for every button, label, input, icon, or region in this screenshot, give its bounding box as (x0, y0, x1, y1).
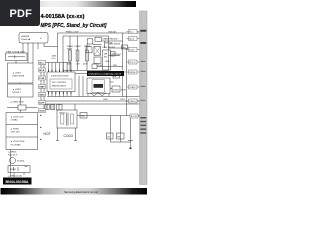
svg-text:▲: ▲ (40, 126, 43, 129)
cap label box (122, 45, 128, 49)
pin box P6 (129, 85, 138, 89)
drive net black strip (87, 71, 124, 76)
svg-text:CN801 AC: CN801 AC (108, 31, 117, 34)
wire: aux horizontal (109, 47, 127, 49)
fuse element (8, 55, 25, 58)
PFC choke winding 2 (51, 105, 55, 110)
transformer T801S box (57, 110, 77, 128)
pin box P8 (130, 114, 138, 118)
svg-text:GND-S: GND-S (129, 101, 136, 103)
svg-text:IC801S DDP-SS2N: IC801S DDP-SS2N (51, 76, 69, 78)
wire box2 to inrush switch (20, 97, 22, 113)
svg-text:T801S: T801S (59, 113, 66, 115)
right pin tag boxes (129, 30, 139, 119)
main PFC box outline (63, 36, 109, 71)
net table divider 2 (6, 136, 38, 138)
bridge diode module (94, 46, 101, 55)
part number plate (3, 178, 32, 185)
capacitor stubs (70, 36, 87, 71)
sense end bar (128, 140, 133, 142)
standby IC die blob (94, 84, 104, 88)
svg-text:PFC CONTROL: PFC CONTROL (52, 82, 67, 84)
bridge rectifier bus (43, 61, 45, 109)
EMI filter block box 2 (8, 84, 34, 97)
svg-text:27mH 5A: 27mH 5A (21, 38, 31, 41)
wire: aux row a (102, 40, 123, 42)
svg-text:▲ C814 0.22uF: ▲ C814 0.22uF (11, 140, 26, 143)
wire: aux row b (93, 41, 105, 48)
bulk capacitor C801 (69, 50, 72, 61)
choke hatch (46, 105, 53, 110)
pin tag CN4 (39, 85, 46, 89)
secondary drop 1 (110, 116, 112, 143)
stubs into circuit (123, 32, 129, 102)
secondary rail (77, 115, 140, 117)
svg-text:FM801 0.5W: FM801 0.5W (66, 32, 79, 34)
pin box P2 (129, 37, 138, 41)
wire between blocks (19, 83, 21, 84)
pin tag CN3 (39, 76, 46, 80)
svg-text:1W: 1W (113, 54, 116, 56)
connector label CNM801 (140, 30, 146, 32)
svg-text:B+13V: B+13V (131, 116, 138, 118)
svg-text:▲ LX802: ▲ LX802 (13, 88, 22, 91)
PFC diode D805 box (87, 39, 93, 44)
relay box RY801 (8, 166, 30, 173)
pin box P1 (129, 30, 138, 34)
svg-text:VCC8: VCC8 (39, 111, 45, 113)
svg-text:PDF: PDF (10, 8, 33, 20)
svg-text:AC-L: AC-L (39, 62, 45, 65)
svg-text:470V 10%: 470V 10% (11, 132, 20, 134)
svg-text:STBY: STBY (39, 87, 45, 89)
svg-text:B+PF: B+PF (39, 103, 45, 105)
component labels / value text smears (7, 31, 127, 178)
aux box D806 (86, 47, 92, 53)
svg-text:B+UP: B+UP (129, 50, 135, 52)
svg-text:R809 56k: R809 56k (105, 43, 113, 45)
snubber box on rail (80, 113, 87, 119)
IC inner die (50, 79, 72, 89)
svg-text:AC-N: AC-N (129, 38, 134, 41)
PFC FET heatsink box (103, 50, 111, 70)
svg-text:LINE FILTER: LINE FILTER (13, 76, 25, 78)
connector pin ticks (141, 61, 146, 101)
svg-text:FILTER 2: FILTER 2 (13, 92, 22, 94)
svg-text:P-ON: P-ON (39, 78, 45, 80)
transformer core lines (66, 113, 68, 126)
pin box P3 (129, 48, 138, 52)
svg-text:0.1u: 0.1u (52, 58, 56, 60)
svg-text:DM801 RBV-406: DM801 RBV-406 (103, 39, 119, 41)
primary bus line B (41, 103, 140, 105)
svg-text:450V: 450V (67, 64, 72, 66)
svg-text:CM803: CM803 (84, 46, 91, 48)
svg-text:GND1: GND1 (39, 95, 45, 97)
pin tag CN2 (39, 68, 46, 72)
transformer primary winding (61, 114, 64, 124)
svg-text:▲ SRD-S-112D: ▲ SRD-S-112D (8, 175, 23, 178)
IC bottom pin wires (49, 94, 72, 97)
wires from node row to IC (49, 63, 72, 70)
svg-text:105°: 105° (76, 64, 80, 66)
svg-text:AC-N: AC-N (39, 69, 45, 72)
opto PC801 box (112, 86, 120, 92)
secondary drop 2 (120, 116, 122, 143)
pin tag CN6 (39, 101, 46, 105)
svg-text:D851: D851 (81, 116, 85, 118)
line filter LF801 body (19, 33, 48, 44)
connector label CNM802 (140, 42, 146, 44)
wire: snubber horizontal (109, 55, 121, 57)
svg-text:▲ C813 0.1uF: ▲ C813 0.1uF (11, 116, 25, 119)
svg-text:RY801: RY801 (10, 169, 17, 171)
net table frame (6, 113, 38, 150)
PFC choke winding 1 (45, 105, 49, 110)
wire label box to pin (128, 46, 129, 48)
primary entry box (57, 105, 63, 111)
pin box P5 (129, 70, 138, 74)
svg-text:D806 UF5404: D806 UF5404 (103, 47, 116, 49)
left pin tag column (39, 61, 46, 113)
bulk capacitor C802 (76, 50, 79, 61)
standby box corner pins (88, 94, 109, 97)
pin box P7 (129, 99, 138, 103)
svg-text:▲: ▲ (40, 37, 42, 40)
transformer secondary winding (70, 114, 73, 124)
wire big box to strip (75, 73, 87, 75)
isolation drop cold side (75, 128, 77, 141)
PFC controller IC801 body (47, 72, 75, 92)
pin box P4 (129, 60, 138, 64)
wire: aux feed (126, 48, 128, 116)
wire: drop from top bus to filter stage (57, 33, 59, 63)
svg-text:450V: 450V (83, 64, 88, 66)
svg-text:MPS [PFC, Stand_by Circuit]: MPS [PFC, Stand_by Circuit] (41, 23, 108, 29)
wire: top AC bus (58, 32, 140, 34)
primary bus line A (41, 100, 140, 102)
wire: right vertical to drive strip (122, 33, 124, 71)
fuse F801 box (6, 53, 28, 61)
connector CN801 gray bar (140, 11, 148, 185)
snubber box (94, 57, 101, 63)
svg-text:CM802: CM802 (74, 46, 81, 48)
output res box R850 (117, 133, 125, 139)
schematic wires and components (6, 33, 140, 178)
standby IC heatsink zigzag (90, 93, 106, 97)
aux box DM801 (95, 37, 101, 41)
output cap box C850 (107, 133, 114, 139)
inrush relay contact box (18, 105, 26, 110)
relay pins (14, 173, 24, 178)
wire: pre-strip row (97, 66, 123, 68)
svg-text:R811: R811 (113, 65, 117, 67)
pin tag CN7 (39, 109, 46, 113)
pin tag CN5 (39, 93, 46, 97)
isolation drop hot side (57, 128, 59, 141)
svg-text:▲: ▲ (40, 114, 43, 117)
bridge module cross (94, 46, 101, 55)
svg-text:330uF: 330uF (67, 48, 73, 50)
wire: node row above IC (41, 62, 71, 64)
svg-text:QM: QM (104, 54, 108, 56)
svg-text:▲ LX801: ▲ LX801 (13, 72, 22, 75)
svg-text:F801 T3.15A 250V: F801 T3.15A 250V (7, 51, 26, 54)
sense end dot (130, 148, 132, 150)
svg-text:SC4056: SC4056 (17, 161, 25, 163)
svg-text:PW(PFC) DRIVE OUT: PW(PFC) DRIVE OUT (89, 72, 123, 76)
bulk capacitor C803 (86, 50, 89, 61)
svg-text:ZD801: ZD801 (98, 65, 103, 67)
svg-text:X2 275VAC: X2 275VAC (11, 143, 22, 146)
connector label stack (140, 117, 146, 134)
resistor box R810 (113, 73, 120, 79)
svg-text:Samsung Electronics (xx-xx): Samsung Electronics (xx-xx) (64, 190, 98, 194)
line filter pins (23, 43, 38, 63)
secondary bottom link (111, 141, 131, 143)
header gradient bar (28, 1, 136, 7)
svg-text:▲: ▲ (40, 138, 43, 141)
wire: strip to return rail (122, 76, 124, 97)
PDF badge (0, 0, 40, 26)
inrush wire row (7, 107, 38, 109)
wire fuse to filter (16, 48, 23, 64)
svg-text:PFC-O: PFC-O (129, 62, 136, 64)
svg-text:PC801: PC801 (113, 90, 120, 92)
svg-text:4-00158A (xx-xx): 4-00158A (xx-xx) (41, 14, 85, 20)
aux小 box (92, 64, 97, 69)
transformer feed stubs (59, 104, 75, 110)
footer gradient bar (1, 188, 148, 195)
pin tag CN1 (39, 61, 46, 65)
EMI filter block box 1 (8, 63, 34, 83)
standby IC outer box (87, 78, 110, 94)
svg-text:FAN7530 MX-8: FAN7530 MX-8 (52, 85, 67, 88)
svg-text:Q801: Q801 (116, 54, 122, 56)
IC top pins (49, 70, 72, 73)
svg-text:STB5V: STB5V (129, 87, 136, 89)
wire: left rectified rail (40, 63, 42, 102)
svg-text:C809: C809 (105, 61, 109, 63)
svg-text:817B: 817B (121, 90, 126, 92)
pin box stubs to connector (123, 32, 140, 117)
svg-text:▲ RV801: ▲ RV801 (11, 128, 21, 131)
net table divider 1 (6, 124, 38, 126)
svg-text:▲ VZ801 470V: ▲ VZ801 470V (10, 101, 24, 104)
svg-text:LF801M: LF801M (21, 36, 29, 38)
NTC thermistor circle (10, 158, 16, 164)
standby right stubs (110, 82, 114, 89)
svg-text:C8: C8 (122, 47, 124, 49)
IC bottom pins (49, 92, 72, 95)
connector inner edge (140, 11, 142, 185)
AC inlet chain wire (10, 150, 12, 178)
wire to bottom sense (130, 116, 132, 148)
svg-text:COLD: COLD (64, 134, 74, 138)
svg-text:HOT: HOT (44, 132, 51, 136)
svg-text:NTC 5D-9: NTC 5D-9 (8, 155, 18, 157)
gate resistor box (111, 52, 116, 57)
return rail upper (47, 96, 140, 98)
svg-text:DRIVE: DRIVE (129, 72, 136, 74)
relay contacts (14, 166, 28, 171)
page background (0, 0, 149, 198)
svg-text:275VAC: 275VAC (11, 119, 19, 122)
wire filter out to main (44, 43, 58, 47)
wires: strip area drops (79, 76, 83, 97)
standby IC inner (92, 80, 105, 92)
svg-text:BN44-00158A: BN44-00158A (6, 180, 30, 184)
drop end ticks (56, 140, 77, 142)
svg-text:▲ TH801: ▲ TH801 (8, 151, 17, 154)
